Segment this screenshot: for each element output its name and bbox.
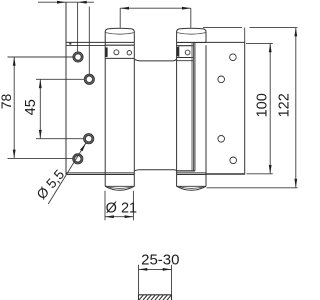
right plate hole 4 <box>230 157 237 164</box>
right barrel body edges <box>176 43 178 187</box>
ext line hole col2 <box>88 7 90 75</box>
svg-text:Ø 5,5: Ø 5,5 <box>34 167 68 203</box>
left barrel collar hole 2 <box>127 51 131 55</box>
ext 122 top a <box>203 27 242 29</box>
left barrel collar hole 1 <box>114 50 119 55</box>
dim top barrel centers <box>120 7 191 9</box>
dim small top line <box>38 1 94 3</box>
right plate hole 1 <box>230 54 237 61</box>
dim 122 line <box>295 28 297 188</box>
O21 dimension <box>105 191 137 221</box>
25-30 dimension and door section <box>139 252 180 300</box>
left barrel <box>105 28 134 190</box>
right barrel knuckle edges <box>191 43 193 171</box>
left barrel bottom inner arc <box>107 186 134 188</box>
left barrel bottom dome <box>105 186 134 190</box>
right barrel bottom line <box>177 185 206 187</box>
ext 45 top <box>36 78 84 80</box>
arrows <box>13 1 297 188</box>
left barrel body edges <box>104 45 106 186</box>
right barrel collar bottom <box>177 45 194 47</box>
ext left barrel center <box>119 8 121 27</box>
right plate hole 3 <box>218 136 225 143</box>
100 arrows <box>269 43 272 52</box>
svg-text:Ø 21: Ø 21 <box>106 200 137 216</box>
right barrel collar slot <box>177 47 179 56</box>
ext 78 top <box>8 56 73 58</box>
45 arrows <box>39 79 42 88</box>
right barrel bottom inner arc <box>178 186 205 188</box>
bottom edge double lines <box>66 173 245 175</box>
middle plate <box>135 59 177 171</box>
door section hatch <box>139 295 172 300</box>
ext 122 bottom <box>207 187 298 189</box>
ext line hole col1 <box>77 2 79 51</box>
ext right barrel center <box>190 8 192 27</box>
122 arrows <box>294 28 297 37</box>
svg-text:45: 45 <box>23 99 39 115</box>
left barrel cap inner arc <box>106 33 134 35</box>
middle plate bottom edge <box>135 170 177 171</box>
dim 100 line <box>269 43 271 173</box>
plate top step <box>69 42 71 44</box>
dim 78 line <box>13 57 15 158</box>
right barrel <box>177 28 206 190</box>
svg-text:100: 100 <box>254 93 270 117</box>
svg-text:78: 78 <box>0 94 14 110</box>
right leaf plate <box>218 42 245 174</box>
right leaf bottom edge crossing <box>177 170 195 172</box>
left barrel cap <box>105 28 134 45</box>
middle plate top edge <box>135 59 177 61</box>
right barrel collar slot edge <box>178 46 180 58</box>
left plate hole 2 <box>84 74 94 84</box>
ext 100 top <box>246 42 273 44</box>
small top dim arrows (outside) <box>57 1 66 4</box>
ext 78 bottom <box>8 157 73 159</box>
svg-text:122: 122 <box>276 93 292 117</box>
right barrel collar hole <box>185 50 190 55</box>
right barrel bottom dome <box>177 186 206 190</box>
ext right plate edge up <box>244 28 246 43</box>
left plate hole 1 <box>73 52 83 62</box>
ext 122 top b <box>250 27 298 29</box>
right barrel cap bottom <box>177 42 206 44</box>
left barrel cap bottom <box>105 44 134 46</box>
dim 45 line <box>39 79 41 138</box>
svg-text:25-30: 25-30 <box>141 252 179 269</box>
leader O5.5 <box>34 143 86 204</box>
right leaf top edge crossing <box>177 60 194 62</box>
left plate hole 4 <box>73 154 83 164</box>
left barrel bottom line <box>105 185 134 187</box>
left edge <box>65 2 67 174</box>
ext 45 bottom <box>36 138 83 140</box>
78 arrows <box>13 57 16 66</box>
left plate hole 3 <box>84 134 94 144</box>
right barrel cap inner arc <box>177 33 206 35</box>
left leaf plate <box>65 2 67 174</box>
left barrel collar slot <box>105 47 107 57</box>
top edge double lines <box>66 42 245 45</box>
left barrel collar bottom <box>105 57 134 59</box>
right plate hole 2 <box>218 76 225 83</box>
top main dim arrows <box>120 7 129 10</box>
right barrel cap <box>177 28 206 42</box>
ext 100 bottom <box>247 173 273 175</box>
